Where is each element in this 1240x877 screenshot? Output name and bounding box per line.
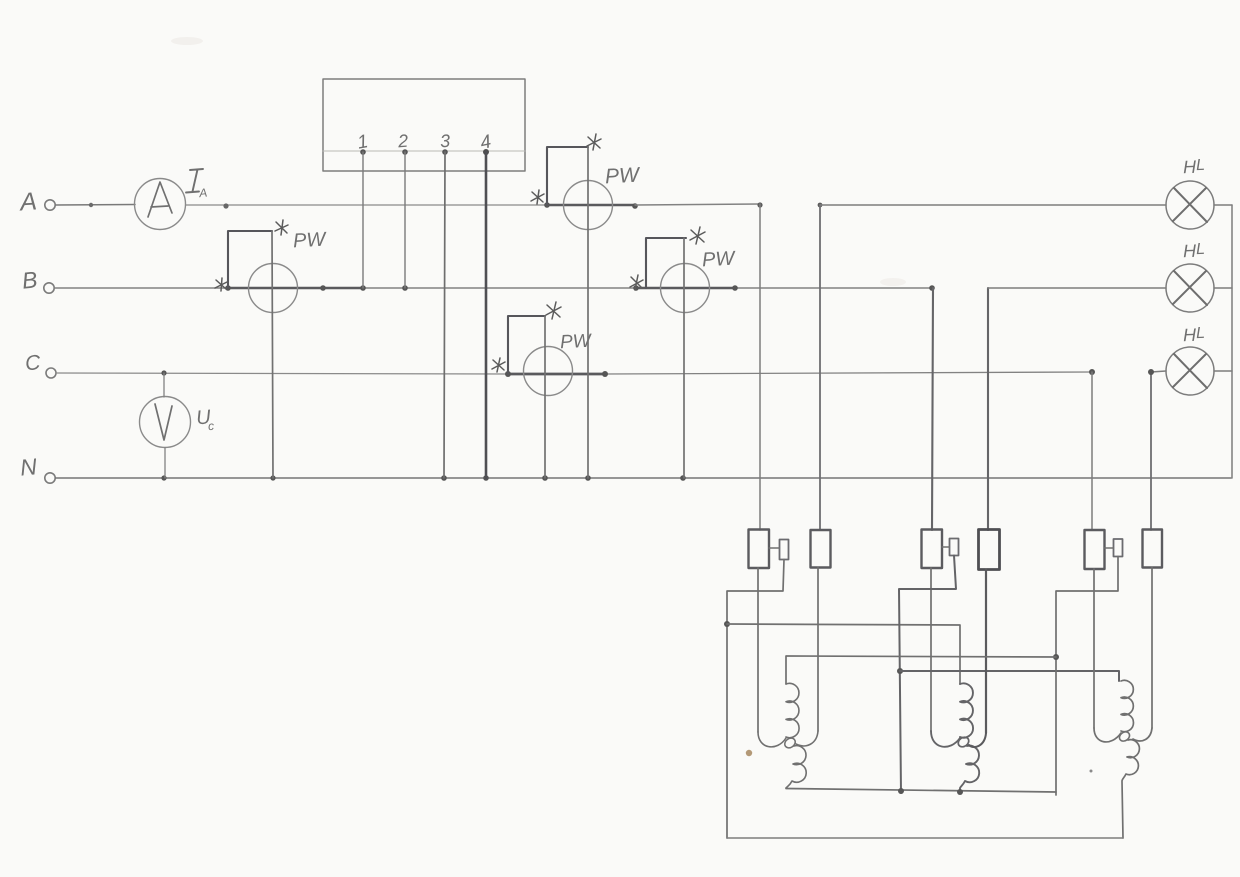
wire H3 to winding L3 top — [900, 671, 1119, 681]
node dots winding bottom bus — [898, 788, 904, 794]
wire B left — [55, 287, 229, 289]
aux SF3 wire down-left — [899, 556, 956, 794]
svg-text:N: N — [19, 453, 38, 480]
wire voltmeter top — [163, 373, 165, 397]
wire lamps right bus down to N — [1231, 205, 1233, 478]
terminal N — [45, 473, 55, 483]
aux contact SF5 — [1114, 539, 1123, 557]
fuse FU6 — [1143, 530, 1163, 568]
svg-text:A: A — [17, 187, 38, 216]
terminal B — [44, 283, 54, 293]
wire pin1 down — [362, 152, 364, 288]
wire A left — [56, 204, 136, 207]
wire A branch to HL1 — [820, 204, 1166, 206]
wire B down to fuse FU3 — [932, 288, 933, 530]
fuse FU4 — [979, 530, 1000, 570]
wire lamp HL2 branch down to fuse FU4 — [987, 288, 989, 530]
winding L1 lower coil — [786, 746, 806, 788]
wire C thick through PW3 — [508, 373, 605, 376]
winding L3 upper coil — [1121, 680, 1133, 731]
svg-text:PW: PW — [604, 163, 641, 188]
wire B thick through PW4 — [636, 287, 735, 290]
label IA — [186, 169, 203, 193]
wire bottom outer loop — [727, 837, 1123, 839]
lamp HL1 — [1166, 181, 1214, 229]
svg-text:PW: PW — [701, 248, 736, 272]
svg-text:2: 2 — [396, 131, 408, 152]
junction arcs L3 — [1094, 728, 1121, 742]
wire lamp HL3 branch down to fuse FU6 — [1150, 372, 1152, 530]
wire C right — [605, 372, 1092, 374]
svg-text:PW: PW — [560, 331, 594, 354]
svg-text:L: L — [1196, 157, 1205, 174]
winding L2 lower coil — [960, 746, 979, 792]
wire C left — [56, 373, 508, 374]
terminal C — [46, 368, 56, 378]
junction arcs L2 — [931, 731, 960, 747]
aux contact SF1 — [780, 540, 789, 560]
svg-text:B: B — [21, 266, 39, 293]
fuse FU4 lower lead — [985, 570, 987, 734]
node dots on C — [161, 370, 166, 375]
fuse FU3 lower lead — [930, 568, 932, 731]
box terminal strip line — [323, 150, 525, 152]
wire C branch to HL3 — [1151, 371, 1166, 372]
fuse FU6 lower lead — [1151, 568, 1153, 729]
node dot A corner — [757, 202, 762, 207]
wattmeter PW2 — [564, 181, 613, 230]
connector box XT — [323, 79, 525, 171]
wire H2 from winding L1 top — [786, 656, 1056, 684]
fuse FU5 — [1085, 530, 1105, 569]
winding L2 upper coil — [960, 683, 973, 737]
wire B mid — [363, 287, 636, 289]
lamp HL3 — [1166, 347, 1214, 395]
fuse FU2 lower lead — [817, 568, 819, 732]
wire voltmeter bottom — [164, 448, 166, 479]
node dot on A — [89, 203, 93, 207]
wire C down to fuse FU5 — [1091, 372, 1093, 530]
aux SF1 wire down-left — [727, 560, 784, 839]
svg-text:c: c — [207, 419, 214, 433]
paper speck — [746, 750, 752, 756]
node dots A at PW2 — [544, 202, 550, 208]
aux contact SF3 — [950, 539, 959, 556]
aux SF5 wire down-left — [1056, 557, 1118, 796]
svg-text:C: C — [24, 351, 42, 375]
wire winding bottom bus — [786, 789, 1056, 793]
terminal dots 1-4 — [360, 149, 366, 155]
fuse FU1 — [749, 530, 770, 569]
node dot H1 start — [724, 621, 730, 627]
node dots on N — [161, 475, 166, 480]
wire pin3 down — [444, 152, 445, 478]
node dot HL3 branch — [1148, 369, 1154, 375]
wattmeter PW3 — [524, 347, 573, 396]
fuse FU2 — [811, 530, 831, 568]
winding L1 upper coil — [786, 683, 799, 737]
wire H1 to winding L2 top — [727, 624, 960, 684]
wire lamp HL1 branch down to fuse FU2 — [819, 205, 821, 530]
svg-text:L: L — [1196, 325, 1205, 342]
wire B thick through PW1 — [228, 287, 363, 290]
wattmeter PW4 — [661, 264, 710, 313]
node dots on B — [225, 285, 231, 291]
ammeter PA1 — [135, 179, 186, 230]
fuse FU3 — [922, 530, 943, 569]
wire N — [56, 477, 1232, 479]
node dot H3 start — [897, 668, 903, 674]
wire B branch to HL2 — [988, 287, 1166, 289]
wire A right — [635, 204, 760, 205]
wattmeter PW1 — [249, 264, 298, 313]
svg-text:PW: PW — [292, 229, 327, 253]
fuse FU1 lower lead — [757, 568, 759, 732]
svg-text:A: A — [197, 186, 207, 201]
svg-text:3: 3 — [439, 131, 450, 152]
lamp HL2 — [1166, 264, 1214, 312]
wire A thick through PW2 — [547, 204, 635, 207]
paper smudge top-left — [171, 37, 203, 45]
junction arcs L1 — [758, 732, 786, 747]
wire B right — [735, 287, 933, 289]
wire pin4 down — [485, 152, 488, 478]
voltmeter PV1 — [140, 397, 191, 448]
winding L3 lower coil — [1122, 740, 1139, 838]
node dot H2 end — [1053, 654, 1059, 660]
svg-text:L: L — [1196, 241, 1205, 258]
fuse FU5 lower lead — [1093, 569, 1095, 728]
wire pin2 down — [404, 152, 406, 288]
node dot A after ammeter — [223, 203, 228, 208]
terminal A — [45, 200, 55, 210]
wire A mid — [186, 204, 547, 206]
wire A down to fuse FU1 — [759, 204, 761, 530]
